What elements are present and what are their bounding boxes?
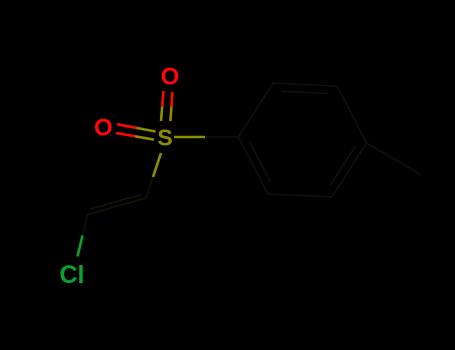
bond ring-CH3 (para methyl, dark)	[367, 143, 421, 174]
bond C2-Cl dark half	[83, 215, 88, 236]
bond C2-Cl green half	[78, 236, 83, 257]
bond S=O left, line 2 red half	[116, 133, 135, 136]
bond S-C1 dark half	[146, 177, 153, 198]
aromatic inner bond 2	[331, 147, 355, 185]
svg-text:Cl: Cl	[60, 261, 85, 289]
bond S=O top, line 2 olive half	[170, 107, 171, 122]
bond S=O top, line 1 red half	[162, 91, 163, 106]
bond C1=C2 second line (dark)	[90, 195, 141, 209]
aromatic inner bond 3	[250, 142, 271, 182]
bond S-Caryl dark half	[205, 136, 239, 138]
svg-text:O: O	[94, 115, 113, 142]
bond S-Caryl olive half	[174, 136, 205, 139]
bond S=O top, line 1 olive half	[161, 106, 162, 121]
bond S-C1 olive half	[153, 153, 161, 177]
bond S=O left, line 1 red half	[117, 124, 136, 128]
benzene ring C6 (dark skeleton)	[239, 83, 367, 197]
bond S=O left, line 1 olive half	[136, 128, 155, 132]
bond S=O left, line 2 olive half	[135, 136, 154, 139]
bond C1=C2 main line (dark)	[88, 198, 147, 215]
bond S=O top, line 2 red half	[171, 92, 172, 107]
svg-text:S: S	[157, 125, 172, 151]
aromatic inner bond 1	[282, 91, 327, 93]
svg-text:O: O	[161, 64, 180, 91]
